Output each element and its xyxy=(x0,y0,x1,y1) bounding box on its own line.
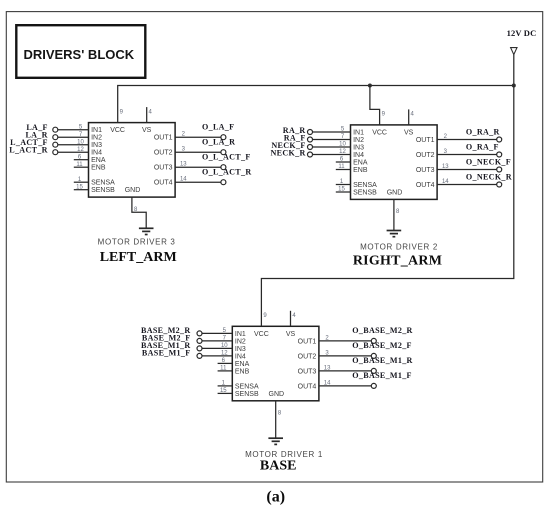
terminal O_BASE_M2_R xyxy=(371,338,376,343)
svg-text:LEFT_ARM: LEFT_ARM xyxy=(100,250,177,265)
svg-text:OUT2: OUT2 xyxy=(154,150,173,157)
wire U3 pin 1 stub xyxy=(74,181,89,183)
svg-text:GND: GND xyxy=(269,391,285,398)
svg-text:SENSB: SENSB xyxy=(353,189,377,196)
wire U1 VS pin 4 stub xyxy=(290,311,292,327)
junction dot at 12V column xyxy=(512,84,516,88)
svg-text:OUT2: OUT2 xyxy=(298,353,317,360)
svg-text:ENA: ENA xyxy=(353,159,368,166)
svg-text:VCC: VCC xyxy=(110,127,125,134)
wire U3 OUT3 output xyxy=(175,166,221,168)
svg-text:IN1: IN1 xyxy=(353,129,364,136)
wire U2 OUT1 output xyxy=(437,139,497,141)
wire U3 pin 15 stub xyxy=(74,189,89,191)
wire U3 IN1 input xyxy=(58,129,89,131)
svg-text:VS: VS xyxy=(286,331,296,338)
wire U1 OUT3 output xyxy=(319,370,372,372)
svg-text:12: 12 xyxy=(221,351,228,357)
power terminal triangle 12V DC xyxy=(511,48,517,55)
wire U2 IN3 input xyxy=(312,146,350,148)
svg-text:IN4: IN4 xyxy=(91,150,102,157)
terminal O_L_ACT_R xyxy=(221,180,226,185)
svg-text:VS: VS xyxy=(142,127,152,134)
wire U1 IN1 input xyxy=(202,332,232,334)
svg-text:DRIVERS' BLOCK: DRIVERS' BLOCK xyxy=(23,47,134,62)
svg-text:O_LA_R: O_LA_R xyxy=(202,138,235,147)
svg-text:SENSB: SENSB xyxy=(91,187,115,194)
svg-text:13: 13 xyxy=(180,162,187,168)
terminal BASE_M1_R xyxy=(197,346,202,351)
svg-text:11: 11 xyxy=(338,164,345,170)
terminal O_NECK_R xyxy=(497,182,502,187)
terminal O_RA_R xyxy=(497,137,502,142)
svg-text:OUT1: OUT1 xyxy=(298,338,317,345)
svg-text:10: 10 xyxy=(339,142,346,148)
svg-text:10: 10 xyxy=(221,343,228,349)
svg-text:IN1: IN1 xyxy=(235,331,246,338)
terminal O_BASE_M2_F xyxy=(371,353,376,358)
svg-text:IN2: IN2 xyxy=(91,135,102,142)
wire U1 pin 1 stub xyxy=(218,385,233,387)
svg-text:11: 11 xyxy=(220,366,227,372)
wire U1 GND xyxy=(275,401,277,438)
terminal O_LA_F xyxy=(221,135,226,140)
wire right column 12V to U1 xyxy=(261,86,513,327)
svg-text:GND: GND xyxy=(387,190,403,197)
svg-text:VS: VS xyxy=(404,129,414,136)
svg-text:IN3: IN3 xyxy=(353,144,364,151)
svg-text:ENB: ENB xyxy=(353,167,368,174)
svg-text:VCC: VCC xyxy=(254,331,269,338)
terminal O_BASE_M1_R xyxy=(371,368,376,373)
terminal O_BASE_M1_F xyxy=(371,383,376,388)
svg-text:O_RA_F: O_RA_F xyxy=(466,143,499,152)
wire U3 IN3 input xyxy=(58,144,89,146)
wire U3 pin 6 stub xyxy=(74,159,89,161)
terminal NECK_R xyxy=(308,152,313,157)
wire U2 pin 1 stub xyxy=(336,184,351,186)
svg-text:OUT2: OUT2 xyxy=(416,152,435,159)
wire U1 IN2 input xyxy=(202,340,232,342)
terminal O_NECK_F xyxy=(497,167,502,172)
wire 12V DC drop xyxy=(513,55,515,86)
svg-text:12: 12 xyxy=(77,147,84,153)
terminal NECK_F xyxy=(308,145,313,150)
svg-text:L_ACT_R: L_ACT_R xyxy=(9,146,48,155)
wire U3 IN4 input xyxy=(58,151,89,153)
wire U3 OUT2 output xyxy=(175,151,221,153)
svg-text:OUT3: OUT3 xyxy=(154,165,173,172)
svg-text:IN4: IN4 xyxy=(235,353,246,360)
wire U2 GND xyxy=(393,199,395,230)
svg-text:MOTOR DRIVER 3: MOTOR DRIVER 3 xyxy=(98,237,176,246)
svg-text:15: 15 xyxy=(220,388,227,394)
terminal BASE_M2_F xyxy=(197,338,202,343)
svg-text:13: 13 xyxy=(324,365,331,371)
terminal RA_F xyxy=(308,137,313,142)
title box DRIVERS' BLOCK xyxy=(16,25,145,78)
wire U3 pin 11 stub xyxy=(74,166,89,168)
svg-text:OUT4: OUT4 xyxy=(154,180,173,187)
terminal LA_R xyxy=(53,135,58,140)
svg-text:O_L_ACT_R: O_L_ACT_R xyxy=(202,168,251,177)
svg-text:O_LA_F: O_LA_F xyxy=(202,123,234,132)
svg-text:13: 13 xyxy=(442,164,449,170)
wire U1 OUT4 output xyxy=(319,385,372,387)
svg-text:(a): (a) xyxy=(266,489,285,506)
wire U2 IN2 input xyxy=(312,139,350,141)
svg-text:GND: GND xyxy=(125,187,141,194)
ground U2 xyxy=(387,231,402,237)
svg-text:MOTOR DRIVER 2: MOTOR DRIVER 2 xyxy=(360,242,438,251)
wire U2 OUT2 output xyxy=(437,154,497,156)
svg-text:14: 14 xyxy=(180,177,187,183)
wire U3 GND xyxy=(132,197,146,228)
svg-text:SENSA: SENSA xyxy=(353,182,377,189)
svg-text:12: 12 xyxy=(339,149,346,155)
svg-text:O_BASE_M1_F: O_BASE_M1_F xyxy=(352,371,412,380)
svg-text:O_L_ACT_F: O_L_ACT_F xyxy=(202,153,251,162)
wire U1 pin 6 stub xyxy=(218,362,233,364)
terminal L_ACT_R xyxy=(53,150,58,155)
terminal O_RA_F xyxy=(497,152,502,157)
svg-text:ENB: ENB xyxy=(91,165,106,172)
svg-text:SENSA: SENSA xyxy=(235,383,259,390)
wire U3 IN2 input xyxy=(58,136,89,138)
svg-text:IN4: IN4 xyxy=(353,152,364,159)
IC U3 motor driver box xyxy=(89,123,176,198)
svg-text:14: 14 xyxy=(442,179,449,185)
wire U2 OUT4 output xyxy=(437,184,497,186)
svg-text:OUT3: OUT3 xyxy=(416,167,435,174)
svg-text:O_BASE_M1_R: O_BASE_M1_R xyxy=(352,356,412,365)
wire U2 OUT3 output xyxy=(437,169,497,171)
svg-text:15: 15 xyxy=(338,187,345,193)
svg-text:ENA: ENA xyxy=(91,157,106,164)
wire U1 IN4 input xyxy=(202,355,232,357)
ground U3 xyxy=(139,228,154,234)
terminal O_LA_R xyxy=(221,150,226,155)
wire U1 OUT2 output xyxy=(319,355,372,357)
svg-text:BASE: BASE xyxy=(260,458,297,473)
wire U2 VS pin 4 stub xyxy=(408,109,410,125)
svg-text:BASE_M1_F: BASE_M1_F xyxy=(142,349,191,358)
wire U2 pin 15 stub xyxy=(336,191,351,193)
svg-text:ENA: ENA xyxy=(235,361,250,368)
svg-text:OUT1: OUT1 xyxy=(154,135,173,142)
svg-text:RIGHT_ARM: RIGHT_ARM xyxy=(353,253,442,268)
svg-text:14: 14 xyxy=(324,380,331,386)
wire U1 OUT1 output xyxy=(319,340,372,342)
svg-text:IN1: IN1 xyxy=(91,127,102,134)
svg-text:O_NECK_F: O_NECK_F xyxy=(466,158,511,167)
svg-text:12V DC: 12V DC xyxy=(507,28,537,38)
svg-text:SENSA: SENSA xyxy=(91,180,115,187)
svg-text:ENB: ENB xyxy=(235,368,250,375)
svg-text:IN2: IN2 xyxy=(353,137,364,144)
terminal RA_R xyxy=(308,130,313,135)
ground U1 xyxy=(268,438,283,444)
wire U2 VCC tap xyxy=(370,86,380,125)
terminal BASE_M1_F xyxy=(197,353,202,358)
svg-text:VCC: VCC xyxy=(372,129,387,136)
svg-text:IN3: IN3 xyxy=(91,142,102,149)
svg-text:O_RA_R: O_RA_R xyxy=(466,128,500,137)
wire top VCC bus xyxy=(118,86,514,123)
junction dot at U2 VCC tap xyxy=(368,84,372,88)
terminal BASE_M2_R xyxy=(197,331,202,336)
svg-text:OUT4: OUT4 xyxy=(298,383,317,390)
svg-text:OUT4: OUT4 xyxy=(416,182,435,189)
wire U2 pin 11 stub xyxy=(336,169,351,171)
wire U2 IN1 input xyxy=(312,131,350,133)
wire U3 OUT1 output xyxy=(175,136,221,138)
wire U3 VS pin 4 stub xyxy=(146,107,148,123)
terminal LA_F xyxy=(53,127,58,132)
svg-text:10: 10 xyxy=(77,139,84,145)
svg-text:SENSB: SENSB xyxy=(235,391,259,398)
svg-text:11: 11 xyxy=(76,162,83,168)
wire U1 pin 11 stub xyxy=(218,370,233,372)
svg-text:IN2: IN2 xyxy=(235,338,246,345)
svg-text:OUT1: OUT1 xyxy=(416,137,435,144)
svg-text:IN3: IN3 xyxy=(235,346,246,353)
wire U1 IN3 input xyxy=(202,347,232,349)
IC U1 motor driver box xyxy=(232,326,319,401)
svg-text:NECK_R: NECK_R xyxy=(271,149,306,158)
svg-text:15: 15 xyxy=(76,184,83,190)
wire U1 pin 15 stub xyxy=(218,392,233,394)
terminal L_ACT_F xyxy=(53,142,58,147)
wire U3 OUT4 output xyxy=(175,181,221,183)
svg-text:OUT3: OUT3 xyxy=(298,368,317,375)
IC U2 motor driver box xyxy=(351,125,438,199)
terminal O_L_ACT_F xyxy=(221,165,226,170)
svg-text:O_NECK_R: O_NECK_R xyxy=(466,173,512,182)
wire U2 IN4 input xyxy=(312,154,350,156)
svg-text:O_BASE_M2_R: O_BASE_M2_R xyxy=(352,326,412,335)
wire U2 pin 6 stub xyxy=(336,161,351,163)
svg-text:O_BASE_M2_F: O_BASE_M2_F xyxy=(352,341,412,350)
